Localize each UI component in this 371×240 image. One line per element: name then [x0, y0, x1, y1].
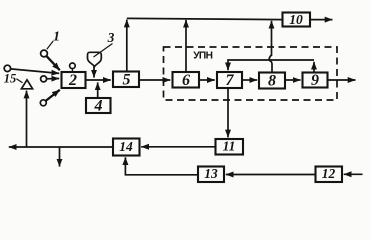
wire: downward stub arrow on left output wire	[59, 147, 61, 167]
svg-text:14: 14	[119, 139, 133, 154]
block 9	[303, 73, 328, 88]
svg-text:4: 4	[94, 98, 103, 115]
wire: input arrow into block12 from right edge	[344, 173, 363, 175]
block 7	[217, 72, 242, 88]
contact circle top (switch position, labelled 1)	[41, 50, 48, 57]
leader line of label 1	[47, 41, 53, 49]
contact circle on top of block2	[70, 63, 76, 69]
wire: block6 to block7	[199, 79, 215, 81]
contact circle bottom	[40, 100, 46, 106]
svg-text:2: 2	[68, 72, 77, 89]
svg-text:6: 6	[182, 72, 190, 89]
svg-text:9: 9	[311, 72, 319, 89]
svg-text:8: 8	[268, 73, 276, 90]
wire: riser from block5 top to top rail	[126, 20, 128, 72]
leader line of label 3	[94, 44, 113, 58]
wire: block10 output arrow	[310, 19, 333, 21]
switch arm from bottom contact into block2	[46, 90, 60, 101]
block 5	[113, 72, 139, 88]
wire: branch line feeding block7 from block9	[228, 60, 314, 70]
block 11	[216, 139, 244, 155]
wire from middle contact into block2	[47, 78, 60, 80]
antenna symbol (labelled 15)	[21, 80, 32, 89]
svg-text:1: 1	[53, 30, 60, 45]
sensor 3 body (cup shape)	[88, 52, 102, 66]
svg-text:12: 12	[322, 166, 336, 181]
block 2	[62, 72, 86, 88]
svg-text:10: 10	[289, 12, 303, 27]
wire: block8 to block9	[285, 79, 301, 81]
wire: block9 top up to branch line	[313, 62, 315, 73]
wire: block13 to block14 bottom riser	[125, 157, 198, 175]
svg-text:УПН: УПН	[193, 51, 212, 62]
block 14	[113, 139, 140, 156]
block 8	[259, 73, 285, 89]
contact circle far left	[4, 65, 10, 71]
wire: block4 up to main wire	[97, 82, 99, 97]
wire from far-left contact into block2	[11, 69, 60, 74]
svg-text:13: 13	[204, 166, 218, 181]
wire: riser from block6 top to top rail	[185, 20, 187, 72]
wire: riser from left wire up to antenna 15	[26, 91, 28, 147]
wire: block5 to block6	[139, 79, 170, 81]
block 10	[283, 13, 311, 27]
svg-text:7: 7	[226, 72, 235, 89]
wire: riser from block8 top with crossover jog to top rail	[269, 21, 272, 73]
svg-text:3: 3	[107, 30, 115, 45]
wire: block9 output to the right	[328, 79, 356, 81]
wire: top rail to block10	[127, 18, 283, 19]
wire: block11 to block14	[141, 146, 215, 148]
block 6	[173, 72, 200, 88]
leader line of label 15	[16, 79, 22, 83]
wire: block7 down to block11	[227, 88, 229, 137]
svg-text:15: 15	[4, 72, 17, 86]
svg-text:11: 11	[223, 139, 236, 154]
block 13	[198, 167, 224, 183]
stem from top contact circle to block2	[71, 69, 73, 73]
block 4	[86, 98, 111, 113]
wire: block7 to block8	[242, 79, 257, 81]
wire: block14 output to left edge arrow	[9, 146, 113, 148]
contact circle middle	[41, 76, 47, 82]
node: junction of sensor-3 stem with main wire	[93, 67, 95, 78]
wire: block2 to block5 main row	[86, 79, 111, 81]
dashed boundary of UPN unit	[164, 47, 338, 100]
block 12	[316, 167, 343, 183]
switch arm from top contact into block2	[47, 56, 60, 70]
svg-text:5: 5	[123, 72, 131, 89]
wire: block12 to block13	[226, 174, 316, 176]
